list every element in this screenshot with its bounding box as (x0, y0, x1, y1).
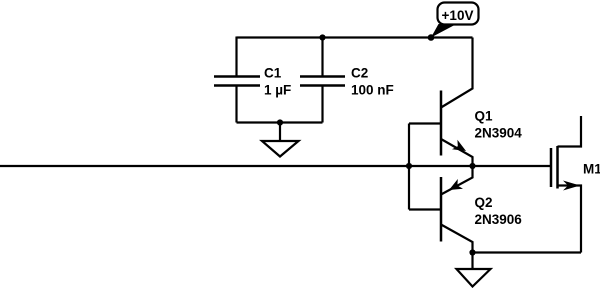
junction node (caps bottom) (277, 119, 283, 125)
svg-text:Q1: Q1 (475, 109, 494, 124)
svg-text:2N3904: 2N3904 (475, 126, 523, 141)
svg-text:2N3906: 2N3906 (475, 212, 523, 227)
wire bottom (to M1 source) (473, 251, 582, 253)
svg-text:M1: M1 (583, 162, 600, 177)
junction node (emitters / gate) (469, 163, 475, 169)
svg-text:C1: C1 (264, 65, 282, 80)
svg-text:1 µF: 1 µF (264, 82, 291, 97)
svg-text:+10V: +10V (442, 8, 474, 23)
power flag +10V (431, 3, 479, 38)
wire main input (0, 165, 551, 167)
svg-text:100 nF: 100 nF (351, 82, 394, 97)
ground (below capacitors) (262, 123, 299, 157)
wire top rail (237, 36, 473, 38)
capacitor C2 (300, 37, 345, 123)
wire Q2 base lead (409, 208, 441, 210)
wire base join (408, 124, 410, 210)
svg-text:Q2: Q2 (475, 195, 493, 210)
junction node (base join / input) (406, 163, 412, 169)
wire Q1 base lead (409, 122, 441, 124)
mosfet M1 (551, 116, 581, 253)
svg-text:C2: C2 (351, 65, 368, 80)
wire bottom rail (237, 121, 323, 123)
junction node (+10V tap) (428, 34, 435, 41)
junction node (C2 top) (319, 34, 325, 40)
ground (output) (457, 253, 491, 287)
capacitor C1 (214, 37, 260, 123)
junction node (Q2 collector / ground) (469, 249, 475, 255)
transistor Q1 (441, 38, 473, 167)
transistor Q2 (441, 166, 473, 253)
